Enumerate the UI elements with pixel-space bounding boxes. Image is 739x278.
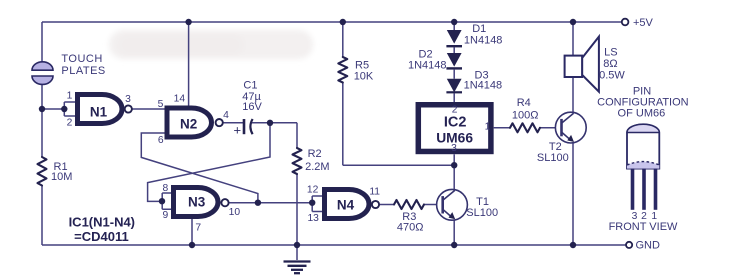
- svg-text:13: 13: [307, 213, 319, 224]
- svg-text:R2: R2: [308, 148, 322, 160]
- svg-text:N3: N3: [188, 194, 206, 209]
- svg-text:11: 11: [369, 187, 380, 198]
- svg-text:OF UM66: OF UM66: [618, 108, 666, 120]
- svg-text:PIN: PIN: [633, 85, 651, 97]
- svg-text:10M: 10M: [51, 171, 72, 183]
- svg-text:7: 7: [195, 222, 201, 233]
- svg-text:2.2M: 2.2M: [305, 161, 329, 173]
- svg-text:N1: N1: [90, 104, 108, 119]
- svg-text:12: 12: [307, 184, 319, 195]
- svg-text:IC2: IC2: [444, 115, 467, 131]
- svg-text:1: 1: [67, 91, 73, 102]
- svg-text:16V: 16V: [242, 101, 262, 113]
- svg-text:SL100: SL100: [537, 152, 569, 164]
- svg-text:470Ω: 470Ω: [397, 222, 424, 234]
- svg-text:2: 2: [452, 104, 458, 115]
- svg-text:14: 14: [174, 94, 186, 105]
- svg-text:0.5W: 0.5W: [599, 70, 625, 82]
- svg-text:10: 10: [229, 207, 241, 218]
- svg-text:1N4148: 1N4148: [408, 60, 447, 72]
- svg-text:8Ω: 8Ω: [603, 58, 617, 70]
- svg-text:8: 8: [163, 183, 169, 194]
- svg-text:+5V: +5V: [633, 17, 654, 29]
- svg-text:IC1(N1-N4): IC1(N1-N4): [69, 214, 135, 229]
- svg-text:N2: N2: [180, 117, 197, 132]
- svg-text:100Ω: 100Ω: [512, 110, 539, 122]
- svg-text:1: 1: [485, 122, 491, 133]
- svg-text:=CD4011: =CD4011: [74, 229, 129, 244]
- svg-text:3: 3: [125, 94, 131, 105]
- svg-text:LS: LS: [604, 46, 617, 58]
- svg-text:1N4148: 1N4148: [464, 34, 503, 46]
- svg-text:PLATES: PLATES: [61, 65, 105, 77]
- svg-text:GND: GND: [636, 240, 661, 252]
- svg-text:TOUCH: TOUCH: [61, 53, 102, 65]
- svg-text:SL100: SL100: [466, 207, 498, 219]
- svg-text:D2: D2: [419, 48, 433, 60]
- svg-text:FRONT VIEW: FRONT VIEW: [609, 221, 678, 233]
- svg-text:3: 3: [451, 143, 457, 154]
- svg-text:4: 4: [223, 110, 229, 121]
- svg-text:1N4148: 1N4148: [464, 80, 503, 92]
- svg-text:+: +: [234, 123, 242, 138]
- svg-text:9: 9: [163, 210, 169, 221]
- svg-text:6: 6: [158, 135, 164, 146]
- svg-text:5: 5: [158, 99, 164, 110]
- svg-text:R4: R4: [517, 97, 531, 109]
- svg-text:C1: C1: [243, 79, 257, 91]
- svg-text:2: 2: [67, 118, 73, 129]
- svg-text:10K: 10K: [354, 71, 374, 83]
- svg-text:N4: N4: [337, 198, 355, 213]
